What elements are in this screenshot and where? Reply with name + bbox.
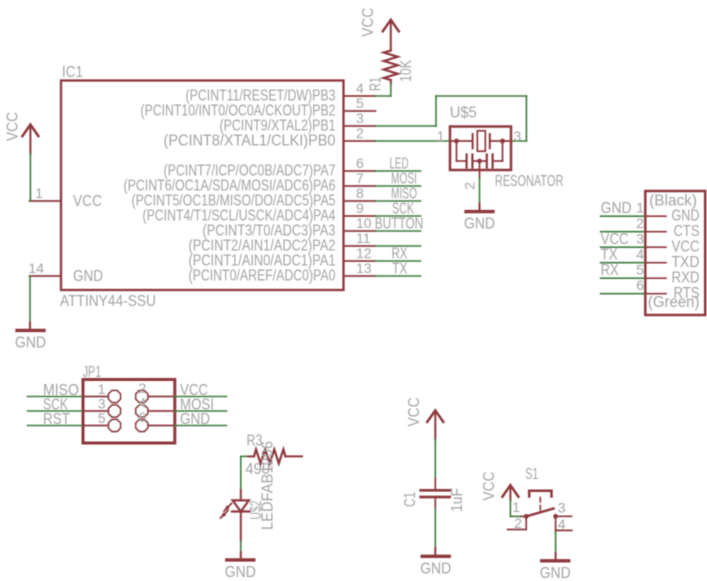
svg-text:TX: TX [392,261,407,278]
svg-text:9: 9 [356,200,364,216]
svg-text:3: 3 [636,231,644,247]
svg-text:(PCINT0/AREF/ADC0)PA0: (PCINT0/AREF/ADC0)PA0 [189,268,336,285]
svg-text:1: 1 [437,128,445,144]
svg-text:VCC: VCC [406,398,423,427]
svg-text:JP1: JP1 [83,364,102,381]
svg-text:GND: GND [73,268,103,285]
svg-text:2: 2 [462,182,478,190]
svg-text:RST: RST [43,411,70,428]
svg-text:1: 1 [35,185,43,201]
svg-text:TX: TX [601,247,619,264]
svg-text:1uF: 1uF [449,488,466,512]
svg-text:3: 3 [558,500,566,516]
svg-text:ATTINY44-SSU: ATTINY44-SSU [60,293,156,310]
svg-text:3: 3 [514,128,522,144]
svg-text:VCC: VCC [73,193,102,210]
svg-text:1: 1 [636,200,644,216]
svg-text:IC1: IC1 [62,64,83,81]
svg-text:VCC: VCC [360,8,377,37]
svg-text:5: 5 [98,410,106,426]
svg-text:2: 2 [636,215,644,231]
svg-text:1: 1 [512,499,520,515]
svg-text:RTS: RTS [674,285,700,302]
svg-text:14: 14 [28,260,44,276]
svg-text:2: 2 [356,125,364,141]
svg-text:GND: GND [540,565,571,581]
svg-text:6: 6 [139,409,147,425]
svg-text:6: 6 [636,277,644,293]
svg-text:VCC: VCC [481,472,498,501]
svg-text:2: 2 [514,515,522,531]
svg-text:GND: GND [464,216,495,233]
svg-text:BUTTON: BUTTON [375,216,424,233]
svg-text:10: 10 [356,215,372,231]
svg-text:3: 3 [356,110,364,126]
svg-text:GND: GND [225,564,256,581]
svg-text:13: 13 [356,260,372,276]
svg-text:GND: GND [672,208,700,225]
svg-text:7: 7 [356,170,364,186]
svg-text:5: 5 [356,95,364,111]
svg-text:S1: S1 [525,466,538,483]
svg-text:RXD: RXD [672,270,700,287]
svg-text:10K: 10K [398,59,415,82]
svg-text:TXD: TXD [672,254,700,271]
svg-text:6: 6 [356,155,364,171]
svg-text:LEDFAB1206: LEDFAB1206 [260,441,277,530]
svg-text:GND: GND [180,411,210,428]
svg-text:GND: GND [601,200,632,217]
svg-text:4: 4 [636,246,644,262]
svg-text:VCC: VCC [601,231,629,248]
svg-text:VCC: VCC [5,112,22,141]
svg-text:U$5: U$5 [450,105,477,122]
svg-text:11: 11 [356,230,371,246]
svg-text:VCC: VCC [672,239,700,256]
svg-text:RX: RX [601,262,620,279]
svg-text:CTS: CTS [674,223,700,240]
svg-text:GND: GND [420,560,451,577]
svg-text:C1: C1 [402,492,419,507]
svg-text:GND: GND [15,334,46,351]
svg-text:4: 4 [356,80,364,96]
svg-text:12: 12 [356,245,372,261]
svg-text:RESONATOR: RESONATOR [495,173,564,190]
svg-text:R1: R1 [368,77,385,91]
svg-text:5: 5 [636,262,644,278]
svg-text:(PCINT8/XTAL1/CLKI)PB0: (PCINT8/XTAL1/CLKI)PB0 [164,133,336,150]
svg-text:8: 8 [356,185,364,201]
svg-text:4: 4 [558,516,566,532]
